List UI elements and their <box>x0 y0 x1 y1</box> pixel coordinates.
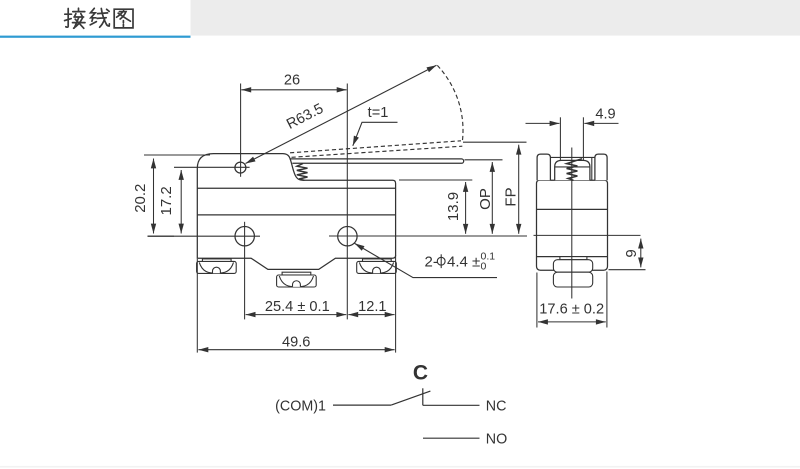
side interior line 1 <box>537 208 608 210</box>
13.9 top reference line (step ext) <box>399 179 472 181</box>
left tab <box>537 154 550 180</box>
header blue underline <box>0 36 191 38</box>
side body outline <box>537 180 608 270</box>
dimension 49.6 <box>198 349 394 351</box>
4.9 right extension line <box>582 117 584 160</box>
side interior line 2 (long line through) <box>534 234 641 236</box>
17.6 dim line <box>538 321 606 323</box>
2-phi4.4 leader <box>355 243 497 277</box>
svg-text:C: C <box>413 362 428 385</box>
pole stub <box>422 388 424 405</box>
svg-text:NC: NC <box>486 398 507 414</box>
NC wire <box>423 404 480 406</box>
left mounting hole <box>235 227 254 246</box>
screw terminal middle <box>277 272 317 287</box>
svg-text:17.6 ± 0.2: 17.6 ± 0.2 <box>539 302 604 318</box>
plunger interior line <box>555 166 590 168</box>
dimension 13.9 <box>465 182 467 234</box>
left hole centerline vertical <box>244 222 246 320</box>
lever swing dashed arc <box>437 65 463 142</box>
49.6/12.1 right extension line <box>395 255 397 353</box>
side screw lower <box>553 272 592 287</box>
spring (side) <box>567 159 582 181</box>
svg-text:NO: NO <box>486 432 507 448</box>
20.2 top reference line (body top ext) <box>144 154 210 156</box>
t=1 leader <box>353 122 398 146</box>
right centerline vertical (26 right ext / hole / 25.4-12.1 ext) <box>346 84 348 320</box>
title 接线图 (drawn strokes) <box>65 8 133 28</box>
svg-text:OP: OP <box>477 188 494 210</box>
side screw seat <box>553 257 592 287</box>
switch blade <box>391 391 430 405</box>
svg-text:13.9: 13.9 <box>445 192 462 221</box>
body interior line 1 <box>197 187 395 189</box>
recess right wall <box>591 157 593 180</box>
holes horizontal centerline segment A <box>148 235 261 237</box>
svg-text:49.6: 49.6 <box>282 334 310 350</box>
4.9 dim line left part <box>526 122 560 124</box>
pivot horizontal line / 17.2 top reference <box>174 166 250 168</box>
side interior line 3 <box>537 256 608 258</box>
screw terminal left <box>197 259 237 274</box>
side centerline <box>571 148 573 299</box>
OP top reference line <box>465 159 503 161</box>
bottom faint divider <box>0 466 800 468</box>
svg-text:17.2: 17.2 <box>158 186 175 215</box>
recess web line <box>550 156 595 158</box>
svg-text:12.1: 12.1 <box>358 299 386 315</box>
dimension 4.9 <box>526 117 619 160</box>
9 bottom reference line <box>609 269 646 271</box>
svg-text:t=1: t=1 <box>368 105 389 121</box>
body interior line 2 <box>197 214 395 216</box>
4.9 dim line right part <box>584 122 618 124</box>
17.6 right extension <box>606 272 608 328</box>
17.6 left extension <box>536 273 538 328</box>
right mounting hole <box>338 227 357 246</box>
svg-text:R63.5: R63.5 <box>284 101 326 133</box>
lever raised dashed position lower edge <box>292 146 463 157</box>
header gray band <box>191 0 800 36</box>
FP top reference line <box>463 141 527 143</box>
spring (front) <box>297 164 308 181</box>
pivot hole <box>235 162 246 173</box>
side screw upper <box>553 260 592 273</box>
dimension 9 <box>609 239 646 270</box>
NO wire <box>423 437 480 439</box>
4.9 left extension line <box>559 117 561 160</box>
svg-text:25.4 ± 0.1: 25.4 ± 0.1 <box>265 299 330 315</box>
svg-text:(COM)1: (COM)1 <box>275 398 326 414</box>
dimension OP <box>491 162 493 234</box>
lever arm <box>290 159 464 163</box>
COM wire <box>333 404 391 406</box>
dimension 17.6 ± 0.2 <box>537 272 607 328</box>
svg-text:9: 9 <box>623 249 640 257</box>
svg-text:4.4 ±: 4.4 ± <box>447 254 480 271</box>
svg-text:2-: 2- <box>425 254 438 271</box>
49.6 left extension line <box>196 259 198 353</box>
pivot centerline vertical / 26 left extension <box>240 84 242 177</box>
17.2 dimension line <box>180 170 182 234</box>
plunger <box>555 160 590 180</box>
holes horizontal centerline segment B <box>329 235 527 237</box>
dimension FP <box>518 145 520 234</box>
switch body outline <box>197 154 395 270</box>
lever raised dashed position upper edge <box>290 65 463 157</box>
dimension 20.2 <box>144 155 210 236</box>
terminal screws front <box>197 259 397 287</box>
svg-text:0: 0 <box>481 260 487 272</box>
20.2 dimension line <box>153 159 155 234</box>
dimension 26 <box>241 89 346 91</box>
20.2/17.2 bottom reference line <box>148 235 175 237</box>
svg-text:20.2: 20.2 <box>132 184 149 213</box>
svg-text:FP: FP <box>502 187 519 206</box>
screw terminal right <box>357 259 397 274</box>
dimension 12.1 <box>348 314 394 316</box>
R63.5 radius leader line <box>246 65 437 163</box>
dimension 25.4 ± 0.1 <box>246 314 347 316</box>
9 dim line <box>640 239 642 268</box>
svg-text:4.9: 4.9 <box>595 106 615 122</box>
right tab <box>595 154 607 180</box>
svg-text:26: 26 <box>284 72 300 88</box>
